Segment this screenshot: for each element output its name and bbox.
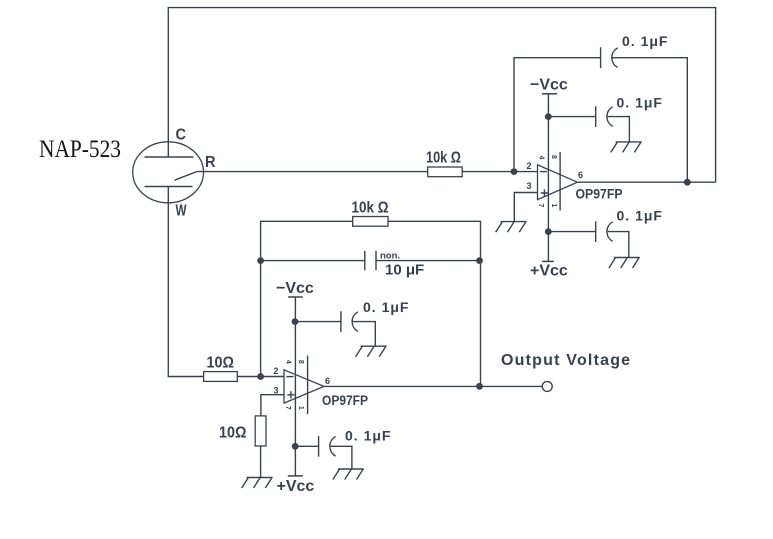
op-amp U1 OP97FP [538, 165, 578, 200]
wire: U2 pin 3 to R4 [261, 395, 284, 416]
U1 offset null stub (pins 8/1) [559, 152, 561, 211]
wire: U1 output [577, 181, 715, 183]
wire: sensor R terminal to U1 pin 2 [197, 171, 538, 173]
junction: U2 feedback cap right node [476, 257, 483, 264]
svg-text:−Vcc: −Vcc [530, 77, 568, 94]
svg-text:0. 1μF: 0. 1μF [345, 428, 391, 444]
svg-text:10Ω: 10Ω [207, 355, 235, 372]
svg-text:OP97FP: OP97FP [576, 187, 623, 202]
svg-text:+Vcc: +Vcc [530, 263, 568, 280]
svg-text:W: W [176, 203, 188, 220]
svg-text:−Vcc: −Vcc [276, 280, 314, 297]
svg-text:3: 3 [526, 181, 531, 191]
svg-text:7: 7 [537, 204, 544, 208]
svg-text:6: 6 [325, 376, 330, 386]
U1 power rail vertical (pins 4/7) [547, 94, 549, 261]
svg-text:C: C [176, 127, 187, 144]
junction: U2 output node [476, 383, 483, 390]
svg-text:0. 1μF: 0. 1μF [363, 299, 409, 315]
-Vcc rail bar (U1) [542, 93, 557, 95]
+Vcc rail bar (U1) [542, 260, 554, 262]
+Vcc rail bar (U2) [288, 475, 303, 477]
svg-text:6: 6 [578, 170, 583, 180]
junction: U1 -Vcc node [545, 113, 552, 120]
wire: U1 -Vcc decoupling cap branch [548, 116, 595, 118]
svg-text:NAP-523: NAP-523 [39, 136, 121, 163]
wire: U2 +Vcc decoupling cap branch [295, 445, 318, 447]
svg-text:4: 4 [538, 156, 545, 160]
capacitor C4 10uF non-polar (U2 feedback) [365, 251, 376, 270]
svg-text:10k Ω: 10k Ω [352, 200, 389, 217]
svg-text:1: 1 [550, 204, 557, 208]
svg-text:0. 1μF: 0. 1μF [622, 33, 668, 49]
wire: R4 to ground [260, 446, 262, 478]
svg-text:10 μF: 10 μF [385, 262, 424, 279]
wire: U2 output to terminal [324, 385, 542, 387]
-Vcc rail bar (U2) [288, 296, 303, 298]
resistor R3 10ohm (U2 input) [204, 372, 238, 382]
junction: U1 output / feedback node [684, 179, 691, 186]
svg-text:3: 3 [273, 386, 278, 396]
wire: U1 +Vcc decoupling cap branch [548, 231, 595, 233]
wire: U1 feedback from pin2 node up to cap C1 [514, 58, 600, 172]
op-amp U2 OP97FP [284, 370, 324, 403]
wire: C5 to ground [353, 322, 375, 347]
wire: U2 feedback cap branch right [376, 260, 480, 262]
wire: U2 -Vcc decoupling cap branch [295, 321, 341, 323]
svg-text:0. 1μF: 0. 1μF [617, 95, 663, 111]
resistor R1 10kohm (U1 input) [428, 167, 463, 177]
sensor reference electrode tap (R) [175, 172, 197, 181]
ground (C5) [356, 346, 387, 357]
wire: sensor C up across top and down right edge to U1 output [168, 8, 715, 183]
wire: C3 to ground [608, 232, 629, 258]
wire: U2 feedback cap branch left [261, 260, 365, 262]
svg-text:4: 4 [285, 360, 292, 364]
svg-text:0. 1μF: 0. 1μF [617, 208, 663, 224]
wire: C6 to ground [331, 446, 352, 469]
wire: U1 pin 3 to ground [514, 193, 537, 222]
svg-text:non.: non. [380, 251, 400, 262]
junction: U2 -Vcc node [292, 318, 299, 325]
junction: U1 inverting input node [511, 168, 518, 175]
wire: U2 feedback loop (pin2 node, up, across, down to output) [261, 221, 481, 386]
junction: U2 feedback cap left node [257, 257, 264, 264]
svg-text:7: 7 [284, 406, 291, 410]
ground (R4) [242, 478, 273, 489]
resistor R2 10kohm (U2 feedback) [353, 217, 388, 227]
svg-text:1: 1 [297, 406, 304, 410]
capacitor C6 0.1uF (U2 +Vcc decoupling) [319, 436, 336, 457]
gas sensor NAP-523 body [133, 142, 204, 203]
wire: sensor W down and right to U2 pin 2 [168, 187, 284, 377]
svg-text:10Ω: 10Ω [219, 425, 247, 442]
output terminal circle [542, 381, 552, 391]
sensor working electrode plate (W) [145, 186, 193, 188]
svg-text:8: 8 [550, 155, 557, 159]
svg-text:Output Voltage: Output Voltage [501, 352, 631, 369]
ground (C3) [609, 258, 640, 269]
resistor R4 10ohm (U2 pin3 to ground) [255, 416, 266, 446]
capacitor C3 0.1uF (U1 +Vcc decoupling) [596, 221, 613, 242]
svg-text:2: 2 [526, 161, 531, 171]
svg-text:R: R [205, 154, 216, 171]
wire: C1 to U1 output node [613, 58, 688, 183]
svg-text:+Vcc: +Vcc [277, 478, 315, 495]
capacitor C2 0.1uF (U1 -Vcc decoupling) [596, 106, 613, 127]
sensor counter electrode plate (C) [145, 156, 194, 158]
svg-text:2: 2 [273, 366, 278, 376]
ground (C6) [333, 469, 364, 480]
U2 power rail vertical (pins 4/7) [294, 297, 296, 476]
capacitor C5 0.1uF (U2 -Vcc decoupling) [341, 311, 358, 332]
capacitor C1 0.1uF (U1 feedback) [601, 47, 618, 68]
junction: U1 +Vcc node [545, 228, 552, 235]
svg-text:10k Ω: 10k Ω [426, 150, 461, 167]
svg-text:8: 8 [297, 360, 304, 364]
ground (U1 pin 3) [496, 222, 527, 233]
junction: U2 inverting input node [257, 373, 264, 380]
U2 offset null stub (pins 8/1) [307, 356, 309, 414]
svg-text:OP97FP: OP97FP [322, 393, 368, 408]
ground (C2) [611, 142, 642, 153]
wire: C2 to ground [608, 117, 630, 142]
junction: U2 +Vcc node [292, 443, 299, 450]
